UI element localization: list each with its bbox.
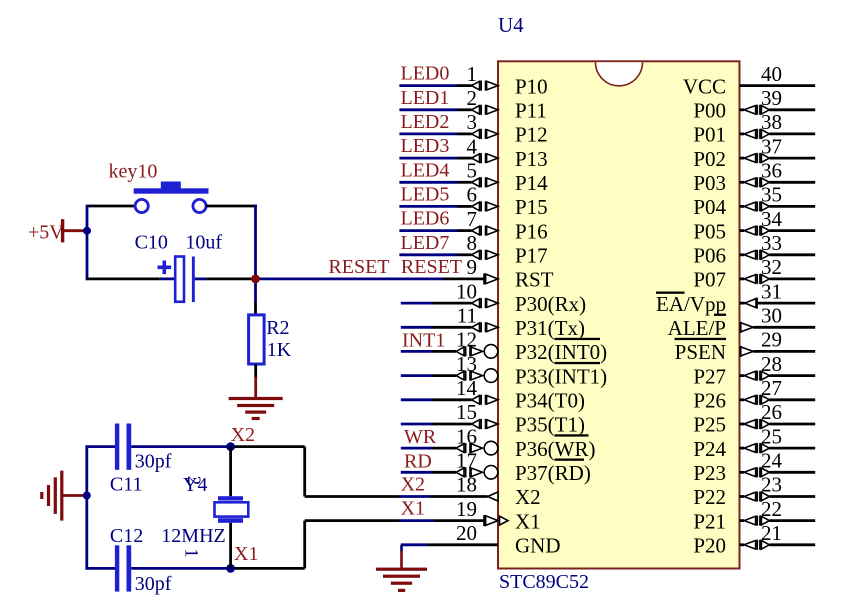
overline WR (pin 16) — [555, 434, 589, 436]
capacitor C12 plates — [115, 545, 119, 591]
pin 40 VCC — [683, 62, 815, 99]
svg-text:P24: P24 — [693, 437, 726, 461]
wire X1 corner rise — [303, 521, 306, 569]
wire top rail left — [87, 205, 135, 208]
svg-text:30pf: 30pf — [135, 451, 172, 473]
svg-text:VCC: VCC — [683, 74, 726, 98]
wire X2 horizontal to pin 18 — [305, 495, 399, 498]
pin 33 P06 — [693, 231, 815, 268]
+5V power bar — [61, 219, 64, 242]
svg-text:EA/Vpp: EA/Vpp — [656, 292, 726, 316]
svg-text:P21: P21 — [693, 509, 726, 533]
wire bottom rail right — [195, 277, 207, 280]
pin 12 P32(INT0) — [456, 328, 607, 365]
svg-text:P20: P20 — [693, 534, 726, 558]
overline EA (pin 31) — [656, 292, 685, 294]
svg-text:31: 31 — [761, 279, 782, 303]
svg-text:29: 29 — [761, 328, 782, 352]
svg-text:18: 18 — [456, 473, 477, 497]
overline RD (pin 17) — [555, 459, 585, 461]
pin 9 RST — [467, 255, 554, 292]
svg-text:P12: P12 — [515, 123, 548, 147]
pin 36 P03 — [693, 159, 815, 196]
svg-text:X1: X1 — [515, 509, 541, 533]
wire stub pin 10 — [401, 302, 432, 305]
pin 28 P27 — [693, 352, 815, 389]
ground symbol (crystal) — [60, 471, 63, 521]
wire X1 horizontal to pin 19 — [305, 519, 399, 522]
pin 8 P17 — [467, 231, 548, 268]
svg-text:6: 6 — [467, 183, 478, 207]
pin 24 P23 — [693, 449, 815, 486]
wire net LED6 — [399, 229, 457, 232]
wire stub pin 11 — [401, 326, 432, 329]
svg-text:1: 1 — [467, 62, 478, 86]
svg-text:key10: key10 — [109, 161, 158, 183]
pin 16 P36(WR) — [456, 424, 596, 461]
svg-text:P16: P16 — [515, 219, 548, 243]
junction dot X1 node — [226, 564, 235, 573]
wire net LED2 — [399, 132, 457, 135]
pin 18 X2 — [456, 473, 541, 510]
pin 34 P05 — [693, 207, 815, 244]
wire stub pin 14 — [401, 398, 432, 401]
svg-text:P03: P03 — [693, 171, 726, 195]
pin 4 P13 — [467, 134, 548, 171]
pin 19 X1 — [456, 497, 541, 534]
resistor R2 — [249, 315, 265, 364]
wire stub pin 16 — [401, 447, 432, 450]
svg-text:RESET: RESET — [401, 256, 462, 278]
svg-text:30pf: 30pf — [135, 573, 172, 595]
wire net LED3 — [399, 157, 457, 160]
crystal Y4 top plate — [218, 496, 243, 500]
pin 22 P21 — [693, 497, 815, 534]
capacitor C11 plates — [115, 424, 119, 470]
wire bottom rail left — [87, 277, 159, 280]
pin 6 P15 — [467, 183, 548, 220]
svg-text:WR: WR — [404, 426, 437, 448]
pin 32 P07 — [693, 255, 815, 292]
svg-text:12MHZ: 12MHZ — [161, 525, 225, 547]
junction dot ground tap — [83, 492, 91, 500]
wire stub pin 12 — [401, 350, 432, 353]
pin 3 P12 — [467, 110, 548, 147]
pin 29 PSEN — [675, 328, 816, 365]
svg-text:P32(INT0): P32(INT0) — [515, 340, 607, 364]
crystal Y4 body — [215, 502, 249, 516]
svg-text:P23: P23 — [693, 461, 726, 485]
svg-text:LED4: LED4 — [401, 159, 450, 181]
wire net LED1 — [399, 108, 457, 111]
wire X2 corner drop — [303, 447, 306, 497]
wire ground tap — [63, 494, 87, 497]
pin 35 P04 — [693, 183, 815, 220]
svg-text:1: 1 — [181, 548, 202, 558]
pin 38 P01 — [693, 110, 815, 147]
pin 26 P25 — [693, 400, 815, 437]
svg-text:LED0: LED0 — [401, 63, 450, 85]
svg-text:20: 20 — [456, 521, 477, 545]
svg-text:3: 3 — [467, 110, 478, 134]
pin 1 P10 — [467, 62, 548, 99]
svg-text:P30(Rx): P30(Rx) — [515, 292, 586, 316]
svg-text:2: 2 — [467, 86, 478, 110]
svg-text:C10: C10 — [135, 232, 168, 254]
svg-text:INT1: INT1 — [402, 329, 445, 351]
svg-text:5: 5 — [467, 159, 478, 183]
svg-text:LED3: LED3 — [401, 135, 450, 157]
svg-text:LED5: LED5 — [401, 183, 450, 205]
wire X1 rail — [87, 567, 115, 570]
svg-text:ALE/P: ALE/P — [668, 316, 726, 340]
svg-text:P34(T0): P34(T0) — [515, 389, 585, 413]
svg-text:LED6: LED6 — [401, 208, 450, 230]
pin 14 P34(T0) — [456, 376, 585, 413]
svg-text:15: 15 — [456, 400, 477, 424]
IC U4 body (STC89C52) — [498, 61, 740, 568]
wire net LED0 — [399, 84, 457, 87]
svg-text:P01: P01 — [693, 123, 726, 147]
pin 23 P22 — [693, 473, 815, 510]
svg-text:P11: P11 — [515, 99, 547, 123]
svg-text:10: 10 — [456, 279, 477, 303]
capacitor C10 positive plate — [175, 257, 184, 302]
svg-text:8: 8 — [467, 231, 478, 255]
wire net LED5 — [399, 205, 457, 208]
wire crystal left vertical — [85, 445, 88, 570]
svg-text:P31(Tx): P31(Tx) — [515, 316, 585, 340]
ground symbol (GND pin) — [376, 568, 427, 571]
junction dot X2 node — [226, 442, 235, 451]
junction dot RESET node — [251, 275, 260, 284]
capacitor C10 negative plate — [192, 257, 195, 303]
svg-text:40: 40 — [761, 62, 782, 86]
pin 13 P33(INT1) — [456, 352, 607, 389]
svg-text:10uf: 10uf — [185, 232, 222, 254]
wire +5V tap — [63, 229, 88, 232]
svg-text:X2: X2 — [515, 485, 541, 509]
pin 10 P30(Rx) — [456, 279, 586, 316]
svg-text:C12: C12 — [110, 525, 143, 547]
wire net LED4 — [399, 181, 457, 184]
wire R2 to ground — [254, 364, 257, 377]
overline INT0 (pin 12) — [555, 338, 601, 340]
svg-text:R2: R2 — [266, 317, 289, 339]
svg-text:P27: P27 — [693, 364, 726, 388]
wire right vertical — [254, 205, 257, 302]
capacitor C10 plus sign — [158, 266, 172, 270]
svg-text:30: 30 — [761, 304, 782, 328]
overline P of ALE/P (pin 30) — [714, 314, 726, 316]
svg-text:19: 19 — [456, 497, 477, 521]
svg-text:P37(RD): P37(RD) — [515, 461, 591, 485]
svg-text:LED1: LED1 — [401, 87, 450, 109]
svg-text:LED7: LED7 — [401, 232, 450, 254]
svg-text:P04: P04 — [693, 195, 726, 219]
svg-text:14: 14 — [456, 376, 478, 400]
svg-text:X2: X2 — [401, 474, 425, 496]
overline PSEN (pin 29) — [675, 338, 727, 340]
svg-text:+5V: +5V — [28, 222, 64, 244]
svg-text:STC89C52: STC89C52 — [499, 571, 589, 593]
wire X2 rail — [87, 445, 115, 448]
pin 15 P35(T1) — [456, 400, 585, 437]
svg-text:GND: GND — [515, 534, 561, 558]
svg-text:P00: P00 — [693, 99, 726, 123]
svg-text:9: 9 — [467, 255, 478, 279]
pin 21 P20 — [693, 521, 815, 558]
pin 2 P11 — [467, 86, 547, 123]
wire left vertical — [86, 205, 89, 281]
ground symbol (R2) — [229, 397, 283, 400]
switch key10 right contact — [193, 199, 206, 212]
pin 37 P02 — [693, 134, 815, 171]
svg-text:P14: P14 — [515, 171, 548, 195]
svg-text:P15: P15 — [515, 195, 548, 219]
wire GND drop — [400, 545, 403, 551]
wire crystal to X1 — [229, 523, 232, 569]
junction dot +5V — [83, 227, 91, 235]
wire stub pin 15 — [401, 423, 432, 426]
svg-text:11: 11 — [457, 304, 477, 328]
pin 27 P26 — [693, 376, 815, 413]
switch key10 left contact — [135, 199, 148, 212]
svg-text:PSEN: PSEN — [675, 340, 726, 364]
pin 7 P16 — [467, 207, 548, 244]
svg-text:P36(WR): P36(WR) — [515, 437, 596, 461]
wire RESET to RST pin — [256, 277, 444, 280]
svg-text:7: 7 — [467, 207, 478, 231]
pin 5 P14 — [467, 159, 549, 196]
svg-text:C11: C11 — [110, 474, 143, 496]
svg-text:LED2: LED2 — [401, 111, 450, 133]
svg-text:X1: X1 — [401, 498, 425, 520]
svg-text:P25: P25 — [693, 413, 726, 437]
svg-text:P17: P17 — [515, 244, 548, 268]
svg-text:P22: P22 — [693, 485, 726, 509]
svg-text:P05: P05 — [693, 219, 726, 243]
wire top rail right — [206, 205, 257, 208]
svg-text:P10: P10 — [515, 74, 548, 98]
svg-text:RST: RST — [515, 268, 554, 292]
svg-text:P02: P02 — [693, 147, 726, 171]
wire GND pin 20 — [401, 543, 428, 546]
svg-text:P06: P06 — [693, 244, 726, 268]
svg-text:1K: 1K — [267, 339, 292, 361]
wire stub pin 17 — [401, 471, 432, 474]
pin 11 P31(Tx) — [457, 304, 585, 341]
svg-text:RESET: RESET — [328, 256, 389, 278]
pin 30 ALE/P — [668, 304, 816, 341]
svg-text:P07: P07 — [693, 268, 726, 292]
wire net LED7 — [399, 253, 457, 256]
svg-text:P33(INT1): P33(INT1) — [515, 364, 607, 388]
svg-text:X2: X2 — [231, 424, 255, 446]
svg-text:2: 2 — [183, 476, 204, 486]
svg-text:P35(T1): P35(T1) — [515, 413, 585, 437]
svg-text:X1: X1 — [234, 543, 258, 565]
pin 20 GND — [456, 521, 561, 558]
pin 25 P24 — [693, 424, 815, 461]
IC top notch — [596, 62, 643, 85]
wire X2 to crystal — [229, 447, 232, 497]
svg-text:RD: RD — [404, 450, 432, 472]
crystal Y4 bottom plate — [218, 518, 243, 523]
overline INT1 (pin 13) — [555, 362, 601, 364]
pin 39 P00 — [693, 86, 815, 123]
wire stub pin 13 — [401, 374, 432, 377]
svg-text:U4: U4 — [498, 13, 524, 37]
pin 17 P37(RD) — [456, 449, 591, 486]
svg-text:P13: P13 — [515, 147, 548, 171]
pin 31 EA/Vpp — [656, 279, 815, 316]
svg-text:4: 4 — [467, 134, 478, 158]
switch key10 actuator bar — [134, 188, 209, 193]
svg-text:P26: P26 — [693, 389, 726, 413]
